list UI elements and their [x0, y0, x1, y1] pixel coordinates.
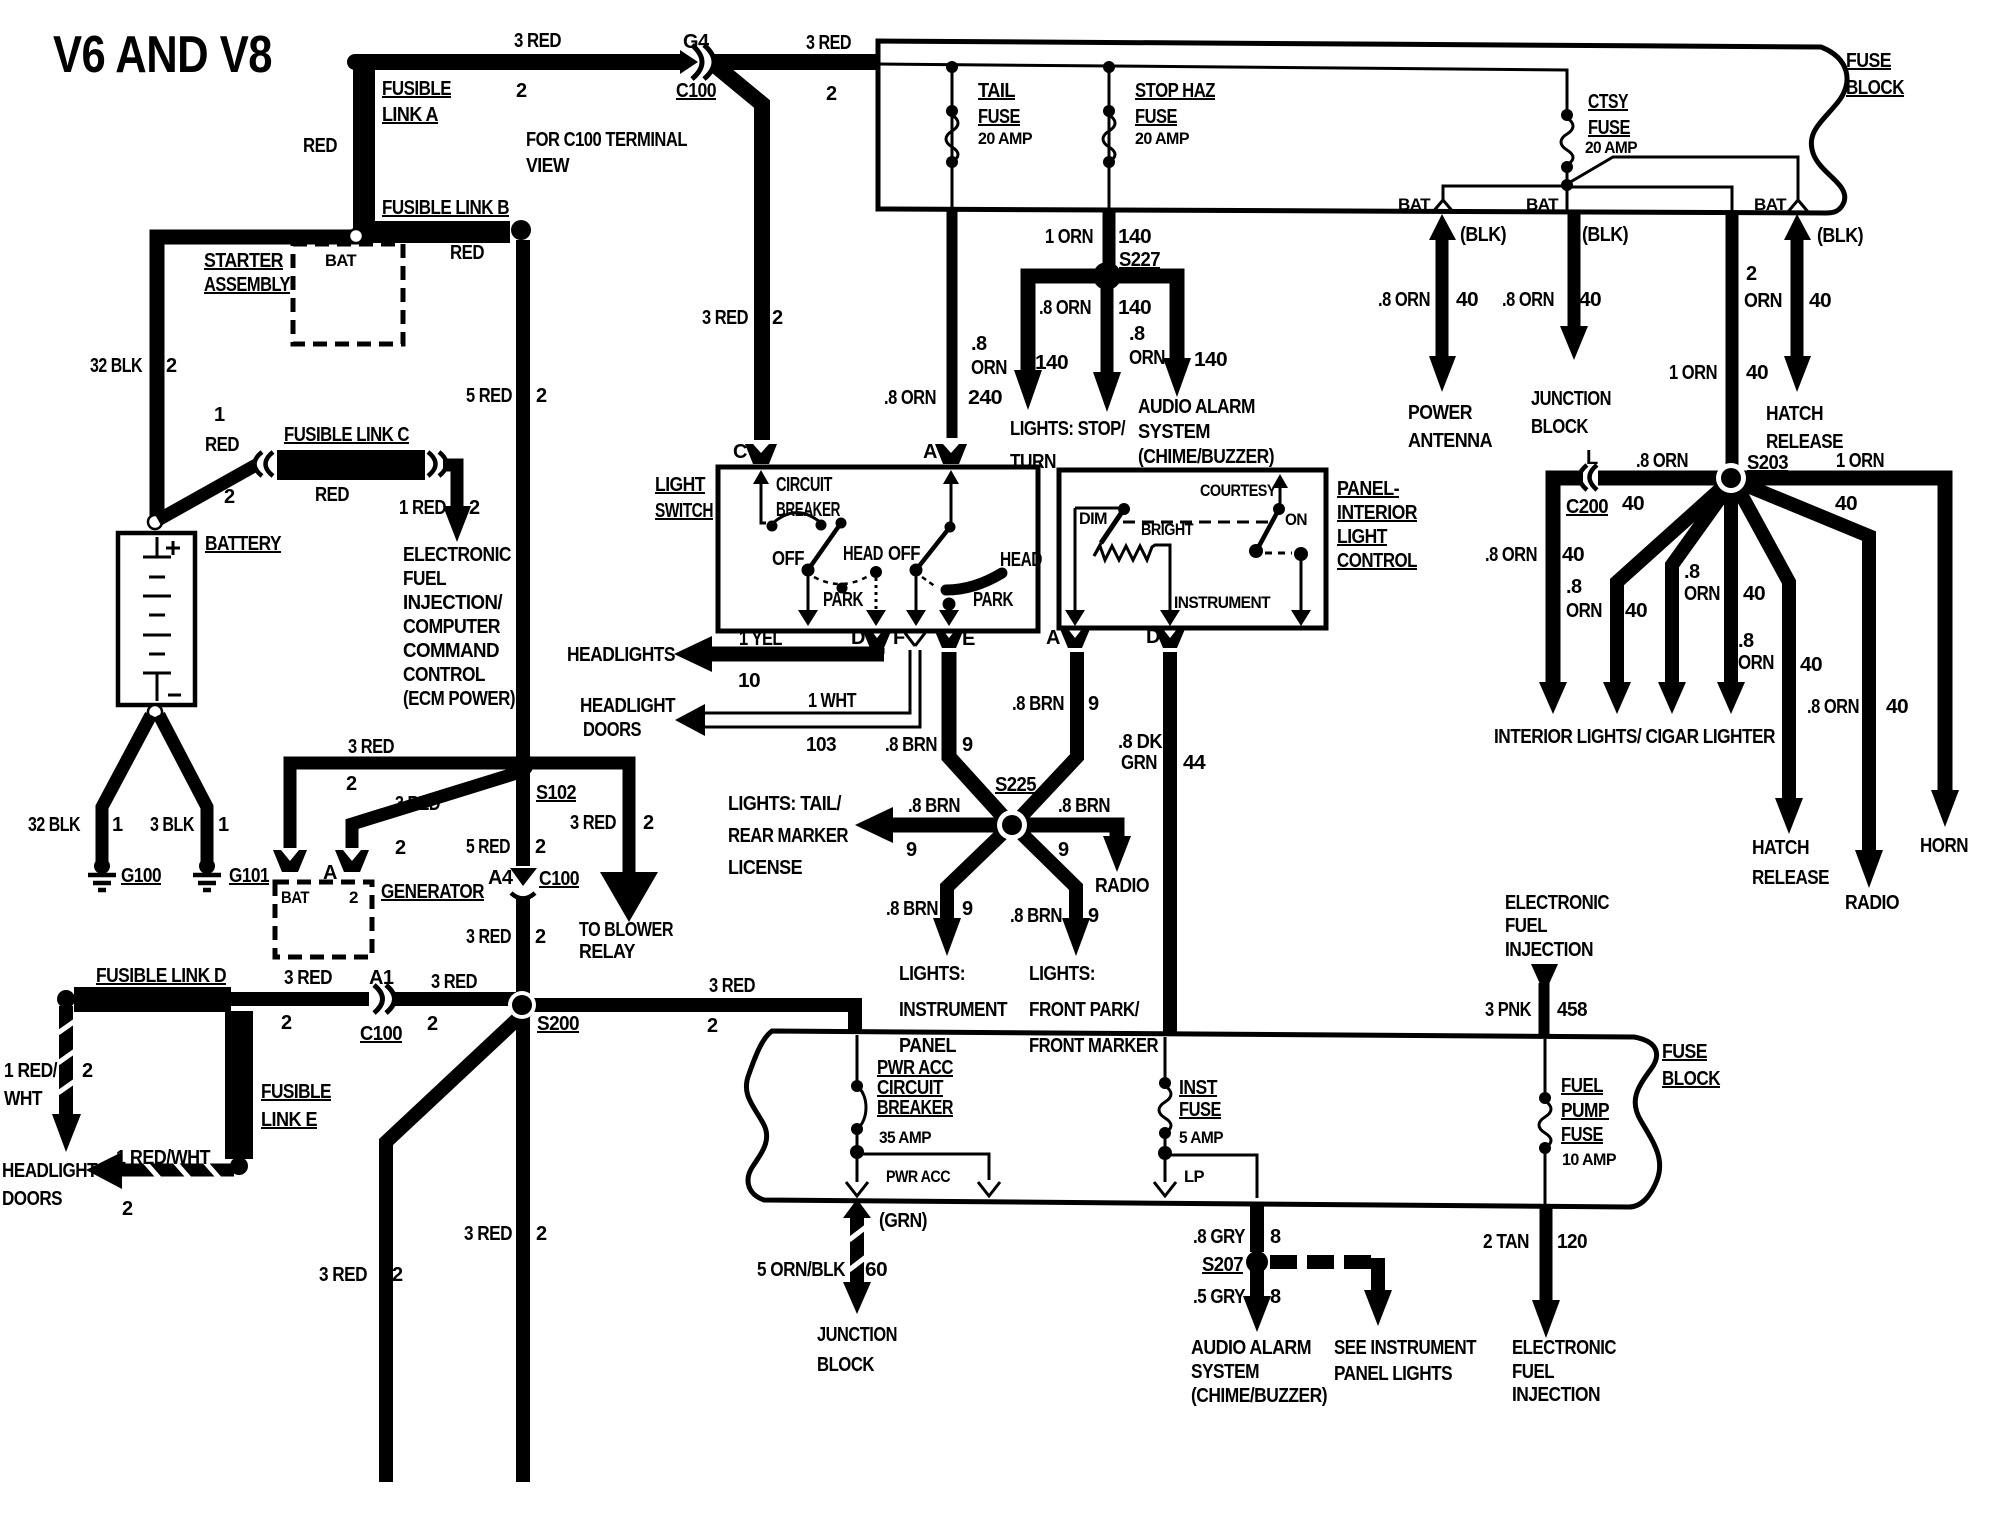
svg-text:SYSTEM: SYSTEM: [1138, 421, 1210, 443]
svg-text:10: 10: [738, 670, 760, 692]
generator dashed box: [275, 882, 372, 957]
svg-text:1 RED/WHT: 1 RED/WHT: [116, 1147, 210, 1169]
node CTSY output junction: [1561, 179, 1573, 191]
connector G4 / C100: [692, 45, 702, 79]
wire .8 ORN 40 branch radio: [1738, 482, 1869, 852]
LP sub box: [1167, 1155, 1257, 1198]
svg-text:40: 40: [1579, 289, 1601, 311]
fusible link B bar: [353, 221, 510, 243]
wire 3 RED trunk from C100 to S200: [516, 897, 530, 1005]
svg-text:40: 40: [1456, 289, 1478, 311]
svg-text:SYSTEM: SYSTEM: [1191, 1361, 1259, 1383]
svg-text:FUSIBLE LINK C: FUSIBLE LINK C: [284, 424, 409, 446]
svg-text:.8: .8: [971, 333, 987, 355]
fuse STOP HAZ 20 AMP: [1108, 67, 1111, 210]
wire 1 ORN 40 to S203: [1726, 213, 1739, 466]
svg-text:INJECTION/: INJECTION/: [403, 592, 503, 614]
ground G100: [94, 858, 110, 874]
svg-text:OFF: OFF: [772, 548, 804, 570]
wire dashed to instrument panel lights: [1270, 1255, 1378, 1269]
svg-text:2: 2: [427, 1013, 438, 1035]
fuse INST 5 AMP: [1164, 1037, 1167, 1080]
svg-text:3 RED: 3 RED: [395, 793, 440, 815]
wire 5 RED trunk from fusible link B to C100: [516, 240, 530, 866]
svg-text:BREAKER: BREAKER: [877, 1097, 954, 1119]
wire 32 BLK to G100: [102, 715, 151, 861]
svg-text:40: 40: [1622, 493, 1644, 515]
node starter BAT junction: [349, 229, 363, 243]
ground G101: [199, 858, 215, 874]
fuse block outline: [878, 41, 1847, 213]
svg-text:A4: A4: [488, 867, 514, 889]
terminal A: [1060, 629, 1090, 648]
svg-text:240: 240: [968, 387, 1003, 409]
wire .8 BRN 9 lower right front park: [1020, 832, 1076, 920]
svg-text:BAT: BAT: [1754, 195, 1787, 214]
svg-text:BAT: BAT: [1398, 195, 1431, 214]
wire .8 ORN 140 middle branch: [1101, 282, 1114, 374]
svg-text:FUEL: FUEL: [403, 568, 446, 590]
terminal D: [1155, 629, 1185, 648]
svg-text:HEADLIGHT: HEADLIGHT: [580, 695, 675, 717]
svg-text:GRN: GRN: [1121, 752, 1157, 774]
svg-text:5 RED: 5 RED: [466, 385, 512, 407]
svg-text:FUEL: FUEL: [1512, 1361, 1554, 1383]
svg-text:120: 120: [1557, 1231, 1587, 1253]
wire 2 TAN 120 to EFI: [1540, 1207, 1553, 1302]
svg-text:32 BLK: 32 BLK: [28, 814, 81, 836]
terminal D: [862, 629, 892, 648]
circuit breaker light switch: [753, 470, 769, 484]
dimmer: [1123, 521, 1268, 524]
svg-text:REAR MARKER: REAR MARKER: [728, 825, 849, 847]
svg-text:BLOCK: BLOCK: [817, 1354, 875, 1376]
svg-text:A: A: [621, 882, 637, 908]
svg-text:1 WHT: 1 WHT: [808, 690, 856, 712]
node S200: [508, 991, 536, 1019]
svg-text:.8 ORN: .8 ORN: [1502, 289, 1554, 311]
svg-text:1 RED: 1 RED: [399, 497, 446, 519]
svg-text:C100: C100: [539, 868, 579, 890]
svg-text:(CHIME/BUZZER): (CHIME/BUZZER): [1138, 446, 1274, 468]
svg-text:LIGHTS:: LIGHTS:: [899, 963, 965, 985]
svg-text:.8: .8: [1684, 561, 1700, 583]
terminal BAT right: [1787, 200, 1809, 213]
svg-text:1 ORN: 1 ORN: [1669, 362, 1717, 384]
svg-text:AUDIO ALARM: AUDIO ALARM: [1191, 1337, 1311, 1359]
terminal generator BAT: [273, 850, 307, 872]
wire .8 ORN 140 right branch: [1107, 276, 1177, 360]
svg-text:BLOCK: BLOCK: [1846, 77, 1905, 99]
node S227: [1093, 262, 1121, 290]
svg-text:A: A: [923, 441, 937, 463]
svg-text:40: 40: [1743, 583, 1765, 605]
svg-text:FUSE: FUSE: [1588, 117, 1630, 139]
svg-text:S102: S102: [536, 782, 576, 804]
svg-text:BLOCK: BLOCK: [1662, 1068, 1721, 1090]
svg-text:PWR ACC: PWR ACC: [886, 1167, 950, 1186]
svg-text:5 RED: 5 RED: [466, 836, 510, 858]
svg-text:FRONT MARKER: FRONT MARKER: [1029, 1035, 1159, 1057]
svg-text:C: C: [733, 441, 747, 463]
svg-text:1: 1: [218, 814, 229, 836]
svg-text:TAIL: TAIL: [978, 80, 1015, 102]
svg-text:LINK E: LINK E: [261, 1109, 317, 1131]
svg-text:ORN: ORN: [1738, 652, 1774, 674]
svg-text:CONTROL: CONTROL: [1337, 550, 1417, 572]
svg-text:.8 BRN: .8 BRN: [885, 734, 937, 756]
terminal F: [905, 633, 925, 646]
svg-text:RADIO: RADIO: [1095, 875, 1149, 897]
svg-text:40: 40: [1809, 290, 1831, 312]
svg-text:BRIGHT: BRIGHT: [1141, 520, 1194, 539]
svg-text:2: 2: [643, 812, 654, 834]
wire 1 ORN 140 from STOP HAZ fuse: [1103, 212, 1116, 270]
fusible link C: [255, 452, 263, 476]
svg-text:ELECTRONIC: ELECTRONIC: [1505, 892, 1609, 914]
svg-text:.8 BRN: .8 BRN: [1058, 795, 1110, 817]
svg-text:GENERATOR: GENERATOR: [381, 881, 485, 903]
svg-text:40: 40: [1562, 544, 1584, 566]
svg-text:PUMP: PUMP: [1561, 1100, 1609, 1122]
wire .8 ORN 140 left branch: [1028, 276, 1107, 372]
svg-text:AUDIO ALARM: AUDIO ALARM: [1138, 396, 1255, 418]
svg-text:E: E: [962, 628, 975, 650]
wire 3 RED from fusible link D to A1: [228, 992, 369, 1006]
svg-text:BAT: BAT: [1526, 195, 1559, 214]
svg-text:COURTESY: COURTESY: [1200, 481, 1277, 500]
svg-text:INJECTION: INJECTION: [1512, 1384, 1600, 1406]
svg-text:2: 2: [392, 1264, 403, 1286]
svg-text:3 RED: 3 RED: [709, 975, 755, 997]
wire .8 BRN 9 from A to S225: [1016, 652, 1077, 822]
svg-text:(BLK): (BLK): [1582, 224, 1628, 246]
wire bracket to BAT power antenna: [1443, 186, 1567, 202]
terminal generator A: [335, 850, 369, 872]
svg-text:TURN: TURN: [1010, 451, 1056, 473]
svg-text:.8 BRN: .8 BRN: [908, 795, 960, 817]
svg-text:1 YEL: 1 YEL: [739, 628, 782, 650]
svg-text:HEAD: HEAD: [843, 543, 883, 565]
svg-text:.8 ORN: .8 ORN: [1636, 450, 1688, 472]
svg-text:2: 2: [224, 486, 235, 508]
svg-text:V6 AND V8: V6 AND V8: [53, 26, 272, 84]
svg-text:1 ORN: 1 ORN: [1836, 450, 1884, 472]
svg-text:RELAY: RELAY: [579, 941, 636, 963]
wire 1 ORN 40 right arm to horn: [1740, 478, 1945, 792]
svg-text:RED: RED: [303, 135, 337, 157]
svg-text:44: 44: [1183, 752, 1207, 774]
light switch box: [718, 467, 1038, 631]
wire 3 RED from S102 to blower relay A: [523, 763, 629, 876]
svg-text:SWITCH: SWITCH: [655, 500, 713, 522]
svg-text:G4: G4: [683, 31, 710, 53]
svg-text:20 AMP: 20 AMP: [978, 129, 1032, 148]
svg-text:FUSE: FUSE: [1846, 50, 1891, 72]
svg-text:ORN: ORN: [971, 357, 1007, 379]
svg-text:LIGHTS: TAIL/: LIGHTS: TAIL/: [728, 793, 842, 815]
svg-text:40: 40: [1746, 362, 1768, 384]
svg-text:1 RED/: 1 RED/: [4, 1060, 58, 1082]
wire 5 ORN/BLK 60 junction block candy stripe: [843, 1199, 871, 1218]
svg-text:.8: .8: [1129, 323, 1145, 345]
svg-text:40: 40: [1835, 493, 1857, 515]
wire 3 RED from A1 to S200: [394, 992, 516, 1006]
circuit breaker PWR ACC 35 AMP: [856, 1035, 859, 1082]
svg-text:FUSE: FUSE: [1561, 1124, 1603, 1146]
svg-text:3 PNK: 3 PNK: [1485, 999, 1532, 1021]
svg-text:ORN: ORN: [1129, 347, 1165, 369]
svg-text:ANTENNA: ANTENNA: [1408, 430, 1492, 452]
svg-text:STARTER: STARTER: [204, 250, 284, 272]
svg-text:2 TAN: 2 TAN: [1483, 1231, 1529, 1253]
svg-text:CIRCUIT: CIRCUIT: [877, 1077, 943, 1099]
svg-text:VIEW: VIEW: [526, 155, 570, 177]
svg-text:3 RED: 3 RED: [319, 1264, 367, 1286]
svg-text:FUEL: FUEL: [1561, 1075, 1603, 1097]
svg-text:FUEL: FUEL: [1505, 915, 1547, 937]
svg-text:9: 9: [962, 734, 973, 756]
svg-text:2: 2: [1746, 263, 1757, 285]
svg-text:FUSE: FUSE: [1662, 1041, 1707, 1063]
svg-text:2: 2: [536, 1223, 547, 1245]
svg-text:2: 2: [536, 385, 547, 407]
wire 3 BLK to G101: [159, 715, 207, 861]
svg-text:140: 140: [1035, 352, 1068, 374]
svg-text:ORN: ORN: [1684, 583, 1720, 605]
svg-text:9: 9: [962, 898, 973, 920]
svg-text:CONTROL: CONTROL: [403, 664, 485, 686]
courtesy switch: [1272, 474, 1288, 488]
svg-text:LICENSE: LICENSE: [728, 857, 802, 879]
svg-text:HEADLIGHT: HEADLIGHT: [2, 1160, 97, 1182]
svg-text:INJECTION: INJECTION: [1505, 939, 1593, 961]
wire .8 BRN 9 left arm lights tail: [892, 818, 1004, 833]
svg-text:C200: C200: [1566, 496, 1608, 518]
svg-text:LIGHTS:: LIGHTS:: [1029, 963, 1095, 985]
svg-text:.8 ORN: .8 ORN: [1378, 289, 1430, 311]
svg-text:PANEL: PANEL: [899, 1035, 956, 1057]
svg-text:3 RED: 3 RED: [431, 971, 477, 993]
svg-text:ELECTRONIC: ELECTRONIC: [403, 544, 511, 566]
svg-text:2: 2: [535, 836, 546, 858]
svg-text:C100: C100: [676, 80, 716, 102]
svg-text:TO BLOWER: TO BLOWER: [579, 919, 674, 941]
svg-text:FUSIBLE LINK B: FUSIBLE LINK B: [382, 197, 509, 219]
svg-text:8: 8: [1270, 1226, 1281, 1248]
svg-text:INST: INST: [1179, 1077, 1217, 1099]
svg-text:40: 40: [1625, 600, 1647, 622]
wire .8 ORN 40 to junction block: [1568, 213, 1581, 328]
wire 3 RED trunk below S200: [516, 1010, 530, 1482]
svg-text:POWER: POWER: [1408, 402, 1473, 424]
svg-text:40: 40: [1800, 654, 1822, 676]
wire 3 RED from S200 into lower fuse block: [841, 1005, 855, 1031]
wire 3 RED diagonal from S200 down left: [386, 1010, 527, 1482]
wire 2 ORN 40 to hatch release: [1784, 214, 1811, 240]
svg-text:INTERIOR LIGHTS/ CIGAR LIGHTER: INTERIOR LIGHTS/ CIGAR LIGHTER: [1494, 726, 1776, 748]
node battery positive junction: [148, 515, 162, 529]
svg-text:CIRCUIT: CIRCUIT: [776, 474, 832, 496]
svg-text:RELEASE: RELEASE: [1752, 867, 1829, 889]
fuse CTSY 20 AMP: [1561, 109, 1573, 121]
svg-text:ORN: ORN: [1744, 290, 1782, 312]
svg-text:DOORS: DOORS: [2, 1188, 62, 1210]
svg-text:HATCH: HATCH: [1766, 403, 1823, 425]
wire .8 ORN 240 from TAIL fuse to light switch A: [947, 210, 958, 438]
svg-text:G100: G100: [121, 865, 161, 887]
node A triangle to blower relay: [600, 872, 658, 922]
svg-text:OFF: OFF: [888, 543, 920, 565]
svg-text:2: 2: [469, 497, 480, 519]
svg-text:LIGHT: LIGHT: [1337, 526, 1387, 548]
fuse FUEL PUMP 10 AMP: [1544, 1039, 1547, 1094]
connector A1 C100: [374, 985, 383, 1013]
wire fuse block bus: [880, 64, 1567, 112]
svg-text:PANEL LIGHTS: PANEL LIGHTS: [1334, 1363, 1452, 1385]
svg-text:35 AMP: 35 AMP: [879, 1128, 931, 1147]
svg-text:2: 2: [516, 80, 527, 102]
wire 3 RED diagonal from C100 down to light switch C: [716, 66, 762, 440]
svg-text:HORN: HORN: [1920, 835, 1968, 857]
switch blade right: [943, 470, 959, 484]
svg-text:DOORS: DOORS: [583, 719, 641, 741]
wire .8 GRY 8 below LP: [1250, 1202, 1264, 1252]
svg-text:ELECTRONIC: ELECTRONIC: [1512, 1337, 1616, 1359]
svg-text:.8 ORN: .8 ORN: [1485, 544, 1537, 566]
node S102: [513, 756, 533, 776]
svg-text:PWR ACC: PWR ACC: [877, 1057, 953, 1079]
svg-text:.8: .8: [1566, 576, 1582, 598]
svg-text:FUSIBLE: FUSIBLE: [261, 1081, 331, 1103]
switch head blade left: [836, 518, 847, 529]
svg-text:1: 1: [214, 404, 225, 426]
svg-text:20 AMP: 20 AMP: [1135, 129, 1189, 148]
svg-text:3 RED: 3 RED: [514, 30, 561, 52]
svg-text:2: 2: [772, 307, 783, 329]
wire 1 RED 2 to ECM: [443, 465, 457, 508]
svg-text:2: 2: [395, 837, 406, 859]
svg-text:FUSE: FUSE: [1179, 1099, 1221, 1121]
svg-text:RED: RED: [315, 484, 349, 506]
wire starter feed to battery: [157, 237, 360, 518]
wire 3 RED top run from fusible link A to G4: [355, 54, 680, 70]
svg-text:S207: S207: [1202, 1254, 1243, 1276]
svg-text:HEADLIGHTS: HEADLIGHTS: [567, 644, 675, 666]
terminal C: [745, 444, 777, 464]
svg-text:HEAD: HEAD: [1000, 549, 1042, 571]
svg-text:LIGHTS: STOP/: LIGHTS: STOP/: [1010, 418, 1126, 440]
svg-text:L: L: [1586, 447, 1598, 469]
terminal E: [934, 629, 964, 648]
svg-text:3 RED: 3 RED: [464, 1223, 512, 1245]
svg-text:140: 140: [1194, 349, 1227, 371]
node battery negative junction: [148, 705, 162, 719]
svg-text:JUNCTION: JUNCTION: [1531, 388, 1611, 410]
svg-text:PANEL-: PANEL-: [1337, 478, 1399, 500]
svg-text:140: 140: [1118, 297, 1151, 319]
svg-text:ORN: ORN: [1566, 600, 1602, 622]
svg-text:INSTRUMENT: INSTRUMENT: [1174, 593, 1271, 612]
wire .8 BRN 9 from E to S225: [949, 652, 1008, 822]
svg-text:C100: C100: [360, 1023, 402, 1045]
svg-text:140: 140: [1118, 226, 1151, 248]
wire 3 RED from G4 to fuse block: [714, 54, 878, 70]
svg-text:103: 103: [806, 734, 836, 756]
svg-text:.8 BRN: .8 BRN: [1012, 693, 1064, 715]
svg-text:D: D: [851, 627, 865, 649]
svg-text:.8 GRY: .8 GRY: [1193, 1226, 1246, 1248]
wire .8 ORN 40 branch 2: [1617, 485, 1725, 684]
svg-text:.5 GRY: .5 GRY: [1193, 1286, 1246, 1308]
wire .8 ORN 40 branch 5 hatch release: [1736, 485, 1789, 800]
terminal A: [935, 444, 967, 464]
svg-text:SEE INSTRUMENT: SEE INSTRUMENT: [1334, 1337, 1476, 1359]
svg-text:DIM: DIM: [1079, 509, 1107, 528]
svg-text:1: 1: [112, 814, 123, 836]
svg-text:BAT: BAT: [281, 888, 310, 907]
svg-text:HATCH: HATCH: [1752, 837, 1809, 859]
svg-text:LINK A: LINK A: [382, 104, 438, 126]
svg-text:A1: A1: [369, 967, 394, 989]
PWR ACC sub box: [859, 1154, 989, 1180]
svg-text:JUNCTION: JUNCTION: [817, 1324, 897, 1346]
svg-text:5 ORN/BLK: 5 ORN/BLK: [757, 1259, 846, 1281]
svg-text:5 AMP: 5 AMP: [1179, 1128, 1223, 1147]
svg-text:20 AMP: 20 AMP: [1585, 138, 1637, 157]
svg-text:STOP HAZ: STOP HAZ: [1135, 80, 1215, 102]
svg-text:.8 ORN: .8 ORN: [884, 387, 936, 409]
svg-text:(BLK): (BLK): [1817, 225, 1863, 247]
svg-text:.8 DK: .8 DK: [1118, 731, 1163, 753]
svg-text:3 RED: 3 RED: [348, 736, 394, 758]
svg-text:ON: ON: [1285, 510, 1307, 529]
lower fuse block outline: [746, 1031, 1659, 1207]
svg-text:FUSE: FUSE: [978, 106, 1020, 128]
wire .8 ORN 40 to power antenna: [1429, 214, 1456, 240]
wire 1 RED/WHT candy stripe left to headlight doors: [118, 1164, 234, 1177]
resistor: [1094, 545, 1170, 612]
switch thick HEAD blade: [946, 573, 1002, 590]
terminal BAT left: [1432, 200, 1454, 213]
connector A4 C100 on trunk: [510, 868, 537, 886]
svg-text:2: 2: [346, 773, 357, 795]
node S207: [1246, 1251, 1268, 1273]
svg-text:COMPUTER: COMPUTER: [403, 616, 501, 638]
wire .8 BRN 9 right arm radio: [1020, 825, 1117, 838]
wire .8 ORN 40 branch 3: [1672, 487, 1728, 684]
wire .8 DK GRN 44 from D to fuse block: [1163, 652, 1177, 1032]
wire 3 RED from S102 to generator A: [352, 772, 520, 848]
wire 1 WHT 103 headlight doors: [700, 650, 910, 713]
svg-text:PARK: PARK: [973, 589, 1014, 611]
svg-text:FUSIBLE LINK D: FUSIBLE LINK D: [96, 965, 226, 987]
svg-text:.8 ORN: .8 ORN: [1807, 696, 1859, 718]
svg-text:3 BLK: 3 BLK: [150, 814, 195, 836]
svg-text:LP: LP: [1184, 1167, 1204, 1186]
svg-text:2: 2: [707, 1015, 718, 1037]
svg-text:8: 8: [1270, 1286, 1281, 1308]
svg-text:RED: RED: [205, 434, 239, 456]
svg-text:2: 2: [122, 1198, 133, 1220]
wire 1 YEL 10 headlights arrow: [870, 648, 885, 654]
svg-text:G101: G101: [229, 865, 269, 887]
svg-text:BATTERY: BATTERY: [205, 533, 282, 555]
svg-text:2: 2: [166, 355, 177, 377]
wire .5 GRY 8 to audio alarm: [1250, 1268, 1264, 1298]
fuse TAIL 20 AMP: [951, 66, 954, 208]
svg-text:WHT: WHT: [4, 1088, 42, 1110]
